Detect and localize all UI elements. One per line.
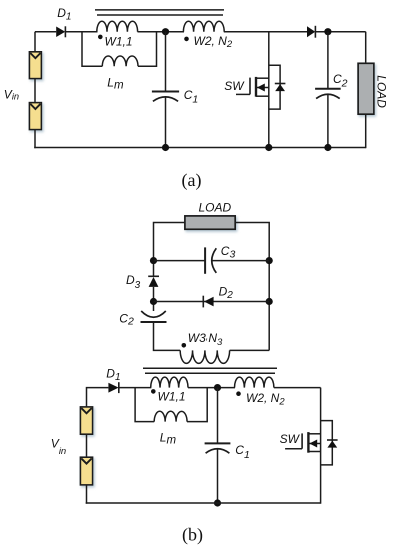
- diode D1 (b): [108, 382, 118, 393]
- label W3,N3 (b): [188, 331, 223, 348]
- node (b) D2 left: [150, 298, 157, 305]
- label D1 (a): [57, 6, 71, 23]
- winding W3,N3 (b): [180, 350, 229, 363]
- wire (b) load right lead: [235, 223, 269, 351]
- wire (b) C3 right lead: [211, 260, 269, 262]
- label D1 (b): [106, 367, 120, 383]
- wire (a) W1 to W2 through node: [138, 31, 185, 33]
- label C1 (b): [235, 443, 250, 461]
- wire (a) output diode to C2 node: [315, 31, 365, 33]
- PV cell 1 (a): [29, 52, 41, 79]
- label Lm (b): [160, 430, 177, 446]
- wire (b) left rail bottom: [86, 485, 88, 504]
- capacitor C3 (b): [205, 247, 216, 273]
- wire (b) C1 bottom lead: [217, 449, 219, 503]
- mosfet SW (b) source arrow: [308, 440, 320, 448]
- wire (b) D1 to W1: [119, 387, 152, 389]
- node (b) C1 to ground rail: [214, 499, 221, 506]
- label LOAD (a): [375, 75, 389, 108]
- wire (b) Lm loop bottom+right: [187, 388, 207, 422]
- node (b) C3 right: [266, 257, 273, 264]
- label W2,N2 (a): [194, 34, 233, 50]
- svg-text:LOAD: LOAD: [199, 201, 232, 215]
- wire (a) W2 to output diode: [224, 31, 307, 33]
- mosfet SW (b) drain stub: [308, 433, 320, 435]
- polarity dot W2 (b): [236, 391, 241, 396]
- node (a) W1-W2-C1 junction: [162, 28, 169, 35]
- label C2 (a): [333, 72, 348, 89]
- winding W1,1 (b): [151, 377, 188, 388]
- inductor Lm (a): [102, 56, 138, 66]
- node (b) C3 left: [150, 257, 157, 264]
- resistor LOAD (a): [358, 63, 374, 114]
- diode D1 (a): [56, 26, 65, 37]
- wire (b) W2 to SW rail: [274, 387, 321, 389]
- mosfet SW (b) gate bar: [301, 433, 303, 448]
- mosfet SW (b) body diode: [327, 440, 338, 448]
- mosfet SW (b) channel bar: [307, 432, 309, 453]
- label SW (b): [280, 432, 301, 446]
- label C2 (b): [119, 311, 134, 327]
- mosfet SW (a) body-diode branch: [269, 65, 280, 109]
- label SW (a): [224, 79, 245, 93]
- wire (a) C1 bottom lead: [165, 98, 167, 148]
- PV cell 2 (b): [80, 457, 92, 485]
- mosfet SW (a) body diode: [275, 84, 286, 92]
- wire (a) C2 top lead: [327, 32, 329, 89]
- mosfet SW (a) channel bar: [255, 77, 257, 97]
- wire (b) between cells: [86, 434, 88, 458]
- winding W2,N2 (b): [235, 377, 274, 388]
- mosfet SW (a) source arrow: [256, 84, 269, 92]
- wire (b) W3 to right branch: [230, 349, 270, 351]
- polarity dot W3 (b): [182, 343, 187, 348]
- transformer T1 core (a): [95, 10, 224, 15]
- svg-text:SW: SW: [280, 432, 301, 446]
- label W1,1 (b): [158, 390, 186, 404]
- wire (a) left rail top: [34, 32, 36, 53]
- wire (b) D2 rail: [154, 301, 270, 303]
- label Vin (a): [4, 88, 19, 102]
- node (a) SW source to rail: [265, 144, 272, 151]
- wire (b) top-left from Vin to D1: [87, 388, 109, 407]
- label C1 (a): [184, 88, 199, 106]
- label Lm (a): [107, 75, 124, 91]
- node (b) D2 right: [266, 298, 273, 305]
- node (a) C2 to ground rail: [324, 144, 331, 151]
- capacitor C1 (a): [152, 92, 179, 102]
- svg-text:SW: SW: [224, 79, 245, 93]
- wire (b) C2 to W3: [154, 322, 181, 350]
- capacitor C2 (b): [141, 311, 167, 322]
- mosfet SW (a) gate bar: [249, 78, 251, 95]
- label D3 (b): [126, 273, 141, 291]
- wire (b) SW rail: [320, 388, 322, 504]
- caption (b): [182, 525, 203, 546]
- transformer T1 core (b): [143, 368, 277, 373]
- output diode (a): [307, 26, 315, 38]
- wire (a) C1 top lead: [165, 32, 167, 92]
- wire (a) bottom rail: [34, 147, 366, 149]
- wire (b) Lm loop left+bottom: [135, 388, 154, 422]
- label LOAD (b): [199, 201, 232, 215]
- wire (a) between cells: [34, 79, 36, 104]
- diode D2 (b): [203, 296, 213, 308]
- inductor winding W1,1 (a): [97, 21, 138, 32]
- node (a) diode-C2 junction: [324, 28, 331, 35]
- mosfet SW (b) source stub: [308, 451, 320, 453]
- mosfet SW (b) gate lead: [285, 448, 302, 450]
- resistor LOAD (b): [185, 216, 235, 229]
- wire (b) load left lead: [154, 223, 185, 277]
- wire (a) Lm loop left+bottom: [82, 32, 102, 67]
- wire (a) load top lead: [365, 32, 367, 64]
- wire (b) C3 left lead: [154, 260, 206, 262]
- capacitor C1 (b): [205, 443, 231, 453]
- label D2 (b): [219, 284, 234, 301]
- wire (a) D1 to W1: [65, 31, 97, 33]
- wire (a) SW drain/source rail: [268, 32, 270, 148]
- diode D3 (b): [148, 276, 159, 287]
- mosfet SW (a) source stub: [256, 95, 269, 97]
- label W2,N2 (b): [246, 391, 285, 408]
- wire (a) top-left from Vin to D1: [35, 31, 56, 33]
- svg-text:(a): (a): [182, 170, 202, 191]
- svg-text:(b): (b): [182, 525, 203, 546]
- node (a) C1 to ground rail: [162, 144, 169, 151]
- label W1,1 (a): [105, 34, 133, 48]
- svg-text:LOAD: LOAD: [375, 75, 389, 108]
- mosfet SW (a) gate lead: [236, 93, 250, 95]
- caption (a): [182, 170, 202, 191]
- inductor winding W2,N2 (a): [183, 21, 224, 32]
- wire (b) W1 to W2 through node: [188, 387, 235, 389]
- label Vin (b): [51, 437, 66, 458]
- label C3 (b): [221, 244, 236, 260]
- svg-text:W1,1: W1,1: [158, 390, 186, 404]
- polarity dot W2 (a): [184, 37, 189, 42]
- mosfet SW (a) drain stub: [256, 77, 269, 79]
- wire (a) C2 bottom lead: [327, 95, 329, 148]
- polarity dot W1 (b): [151, 389, 156, 394]
- polarity dot W1 (a): [98, 35, 103, 40]
- mosfet SW (b) body-diode branch: [321, 421, 333, 465]
- wire (b) D3 to D2 node: [153, 287, 155, 311]
- PV cell 2 (a): [29, 103, 41, 130]
- wire (a) left rail bottom: [34, 130, 36, 149]
- svg-text:W1,1: W1,1: [105, 34, 133, 48]
- wire (b) C1 top lead: [217, 388, 219, 444]
- wire (a) Lm loop bottom+right: [138, 32, 157, 67]
- inductor Lm (b): [154, 411, 187, 421]
- PV cell 1 (b): [80, 407, 92, 434]
- wire (a) load bottom lead: [365, 114, 367, 148]
- node (b) C1 junction: [214, 384, 221, 391]
- capacitor C2 (a): [315, 89, 341, 99]
- wire (b) bottom rail: [86, 502, 321, 504]
